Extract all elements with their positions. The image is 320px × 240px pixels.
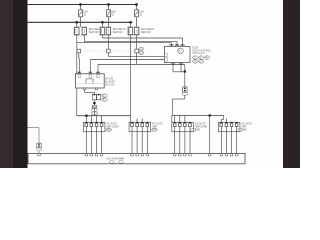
svg-text:MODULE B: MODULE B (193, 53, 205, 55)
svg-text:AMP CONN: AMP CONN (195, 126, 208, 129)
svg-text:EEID QD: EEID QD (113, 32, 123, 34)
svg-text:ECC RELAY: ECC RELAY (113, 28, 126, 31)
svg-text:BLOWER: BLOWER (105, 82, 115, 84)
svg-text:A/C AUTO AMP.: A/C AUTO AMP. (107, 157, 125, 160)
svg-text:EEID QD: EEID QD (89, 32, 99, 34)
svg-text:S: S (179, 49, 181, 53)
svg-text:A/C AUTO: A/C AUTO (195, 123, 206, 126)
svg-text:A/C AUTO: A/C AUTO (152, 123, 163, 126)
svg-text:A/C AUTO: A/C AUTO (106, 123, 117, 126)
svg-text:EEID QD: EEID QD (105, 85, 115, 87)
svg-text:A/C SW: A/C SW (105, 78, 114, 81)
svg-text:EEID QD: EEID QD (141, 32, 151, 34)
svg-text:BODY CONTROL: BODY CONTROL (193, 50, 212, 52)
svg-text:A/C AUTO: A/C AUTO (241, 123, 252, 126)
svg-text:ECC RELAY: ECC RELAY (141, 28, 154, 31)
svg-text:AMP: AMP (241, 126, 246, 129)
svg-text:ECM: ECM (193, 48, 198, 50)
